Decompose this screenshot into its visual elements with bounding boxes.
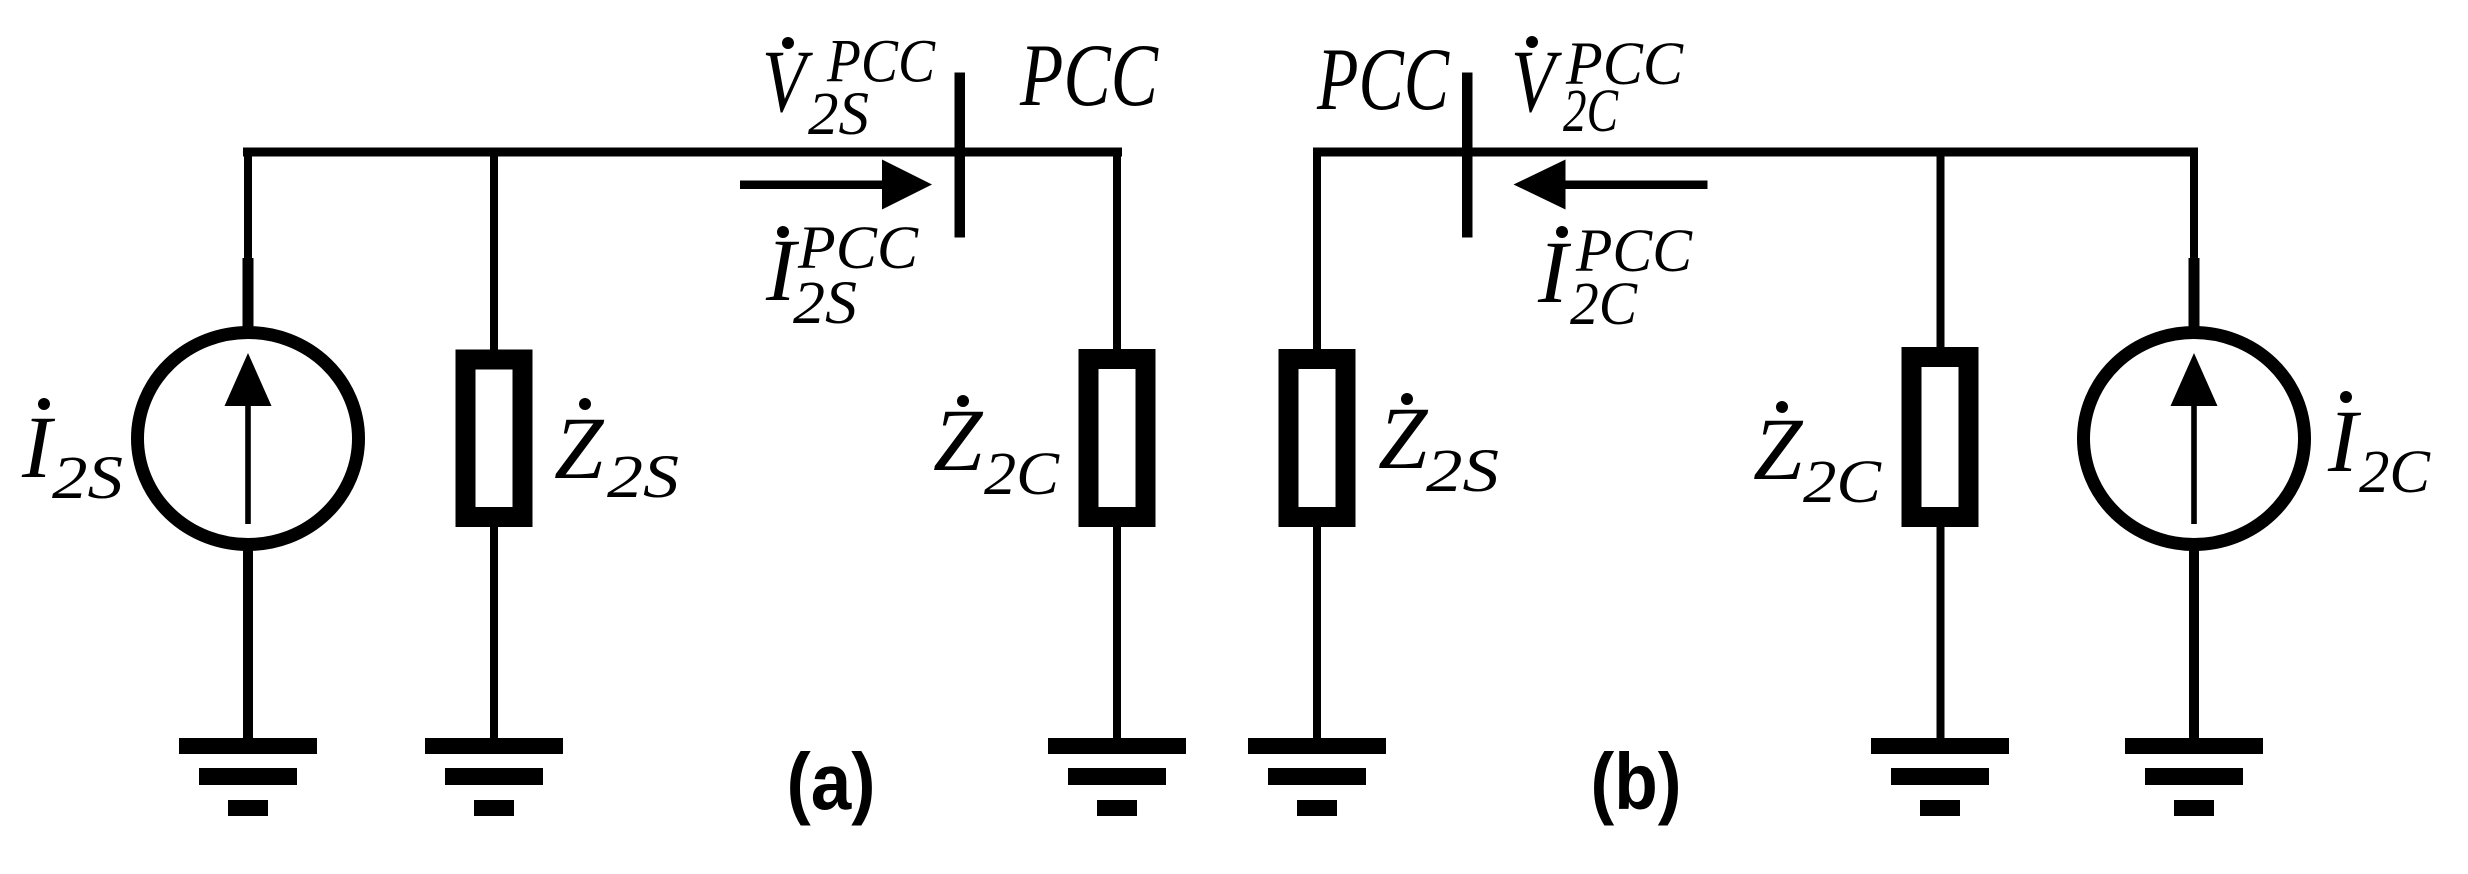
wire top bus (a) <box>243 148 1122 157</box>
svg-text:Z: Z <box>554 400 605 498</box>
svg-text:(a): (a) <box>787 737 876 826</box>
current source I2C circle <box>2084 333 2305 545</box>
svg-text:2S: 2S <box>793 270 857 337</box>
label impedance value Z2C (b) <box>1753 401 1882 516</box>
label impedance value Z2S (b) <box>1378 390 1499 505</box>
current source I2C arrow <box>2171 353 2218 524</box>
wire I2S top stub <box>243 258 254 330</box>
wire I2C branch top lead <box>2190 148 2198 272</box>
current source I2S arrow <box>225 353 272 524</box>
wire top bus (b) <box>1313 148 2198 157</box>
label voltage V2C^PCC (b) <box>1511 31 1684 145</box>
label source current I2S <box>21 398 123 512</box>
arrow current I2C into PCC (b) <box>1514 160 1708 210</box>
svg-text:2S: 2S <box>808 81 869 148</box>
impedance Z2S-a body <box>466 360 523 518</box>
ground (Z2S-a) <box>425 738 563 816</box>
svg-text:2S: 2S <box>607 444 679 511</box>
label current I2S^PCC (a) <box>765 215 919 337</box>
svg-text:2C: 2C <box>984 441 1060 508</box>
node PCC bus bar (a) <box>955 73 966 238</box>
svg-text:Z: Z <box>1378 390 1429 488</box>
svg-text:2C: 2C <box>1570 271 1638 338</box>
wire I2S branch bottom lead <box>243 548 253 739</box>
svg-text:2C: 2C <box>1563 78 1619 145</box>
current source I2S circle <box>138 333 359 545</box>
svg-text:2C: 2C <box>2359 439 2431 506</box>
ground (Z2C-b) <box>1871 738 2009 816</box>
node PCC bus bar (b) <box>1462 73 1473 238</box>
label voltage V2S^PCC (a) <box>762 29 936 149</box>
svg-text:2S: 2S <box>1426 438 1499 505</box>
label current I2C^PCC (b) <box>1537 218 1693 338</box>
impedance Z2C-b body <box>1912 357 1969 517</box>
svg-text:PCC: PCC <box>1019 27 1159 125</box>
svg-text:Z: Z <box>933 392 984 490</box>
wire Z2C branch (b) <box>1937 148 1945 740</box>
ground (I2C) <box>2125 738 2263 816</box>
ground (I2S) <box>179 738 317 816</box>
wire Z2S branch (b) <box>1313 148 1321 740</box>
svg-text:Z: Z <box>1753 401 1804 499</box>
svg-text:V: V <box>1511 33 1562 131</box>
svg-text:I: I <box>1537 224 1572 322</box>
impedance Z2S-b body <box>1289 359 1346 517</box>
ground (Z2C-a) <box>1048 738 1186 816</box>
svg-text:2S: 2S <box>52 445 123 512</box>
wire I2S branch top lead <box>244 148 252 272</box>
svg-text:I: I <box>2327 393 2362 491</box>
ground (Z2S-b) <box>1248 738 1386 816</box>
wire I2C top stub <box>2189 258 2200 330</box>
label impedance value Z2S (a) <box>554 398 679 511</box>
svg-text:(b): (b) <box>1591 737 1682 826</box>
impedance Z2C-a body <box>1089 359 1146 517</box>
wire I2C branch bottom lead <box>2189 548 2199 739</box>
svg-text:I: I <box>21 399 56 497</box>
svg-text:PCC: PCC <box>1316 31 1450 129</box>
svg-text:2C: 2C <box>1803 449 1882 516</box>
label impedance value Z2C (a) <box>933 392 1060 508</box>
label source current I2C <box>2327 391 2431 506</box>
wire Z2S branch (a) <box>490 148 498 740</box>
wire Z2C branch (a) <box>1113 148 1121 740</box>
arrow current I2S into PCC (a) <box>740 160 932 210</box>
